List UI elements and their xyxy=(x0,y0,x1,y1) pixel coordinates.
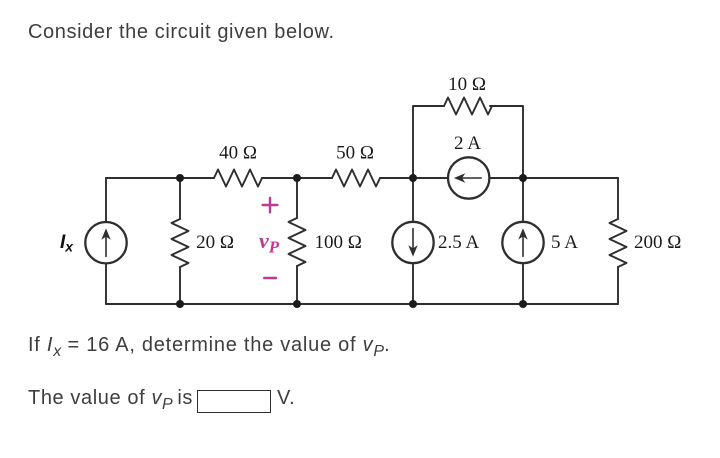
wire top rail: 40ohm to 50ohm xyxy=(262,177,332,179)
current source 5A xyxy=(502,222,543,263)
wire right rail lower lead xyxy=(617,267,619,304)
svg-text:2.5 A: 2.5 A xyxy=(438,232,479,253)
label 5 A xyxy=(551,232,578,253)
wire node C branch upper lead xyxy=(412,178,414,222)
label Ix xyxy=(60,232,74,255)
wire top rail: left corner to 40ohm xyxy=(106,177,214,179)
resistor 200 ohm xyxy=(610,219,627,267)
wire bottom rail xyxy=(106,303,618,305)
svg-text:40 Ω: 40 Ω xyxy=(219,143,257,164)
wire top branch right vertical xyxy=(490,106,523,178)
junction node D top xyxy=(519,174,527,182)
wire left rail lower xyxy=(105,264,107,305)
svg-text:2 A: 2 A xyxy=(454,133,481,154)
svg-text:10 Ω: 10 Ω xyxy=(448,74,486,95)
label 10 ohm xyxy=(448,74,486,95)
wire right rail upper lead xyxy=(617,178,619,219)
wire left rail upper xyxy=(105,178,107,222)
svg-text:Ix: Ix xyxy=(60,232,74,255)
junction node C bottom xyxy=(409,300,417,308)
unit V xyxy=(277,388,295,408)
label plus sign of vP xyxy=(263,198,278,213)
title text xyxy=(28,22,335,42)
label vP xyxy=(259,228,280,257)
question line 2 xyxy=(28,388,193,408)
resistor 20 ohm xyxy=(172,219,189,267)
junction node A top xyxy=(176,174,184,182)
label minus sign of vP xyxy=(264,277,276,279)
junction node C top xyxy=(409,174,417,182)
label 100 ohm xyxy=(315,232,362,253)
label 2.5 A xyxy=(438,232,479,253)
current source 2.5A xyxy=(392,222,433,263)
wire node B branch lower lead xyxy=(296,266,298,304)
wire node B branch upper lead xyxy=(296,178,298,218)
label 50 ohm xyxy=(336,143,374,164)
wire top rail: 50ohm to 2A source xyxy=(380,177,448,179)
resistor 100 ohm xyxy=(289,218,306,266)
current source 2A xyxy=(448,157,489,198)
wire top branch left vertical xyxy=(413,106,444,178)
current source Ix xyxy=(85,222,126,263)
junction node B top xyxy=(293,174,301,182)
resistor 50 ohm xyxy=(332,170,380,187)
question line 1 xyxy=(28,335,390,355)
answer input box xyxy=(197,390,271,413)
svg-text:vP: vP xyxy=(259,228,280,257)
wire node D branch upper lead xyxy=(522,178,524,222)
label 200 ohm xyxy=(634,232,681,253)
resistor 40 ohm xyxy=(214,170,262,187)
label 40 ohm xyxy=(219,143,257,164)
wire node D branch lower lead xyxy=(522,263,524,304)
svg-text:5 A: 5 A xyxy=(551,232,578,253)
svg-text:50 Ω: 50 Ω xyxy=(336,143,374,164)
label 20 ohm xyxy=(196,232,234,253)
label 2 A xyxy=(454,133,481,154)
wire node A branch lower lead xyxy=(179,267,181,304)
resistor 10 ohm xyxy=(444,98,492,115)
junction node B bottom xyxy=(293,300,301,308)
svg-text:20 Ω: 20 Ω xyxy=(196,232,234,253)
junction node D bottom xyxy=(519,300,527,308)
wire node A branch upper lead xyxy=(179,178,181,219)
wire node C branch lower lead xyxy=(412,263,414,304)
svg-text:100 Ω: 100 Ω xyxy=(315,232,362,253)
junction node A bottom xyxy=(176,300,184,308)
svg-text:200 Ω: 200 Ω xyxy=(634,232,681,253)
wire top rail right (2A source to right corner) xyxy=(490,177,619,179)
